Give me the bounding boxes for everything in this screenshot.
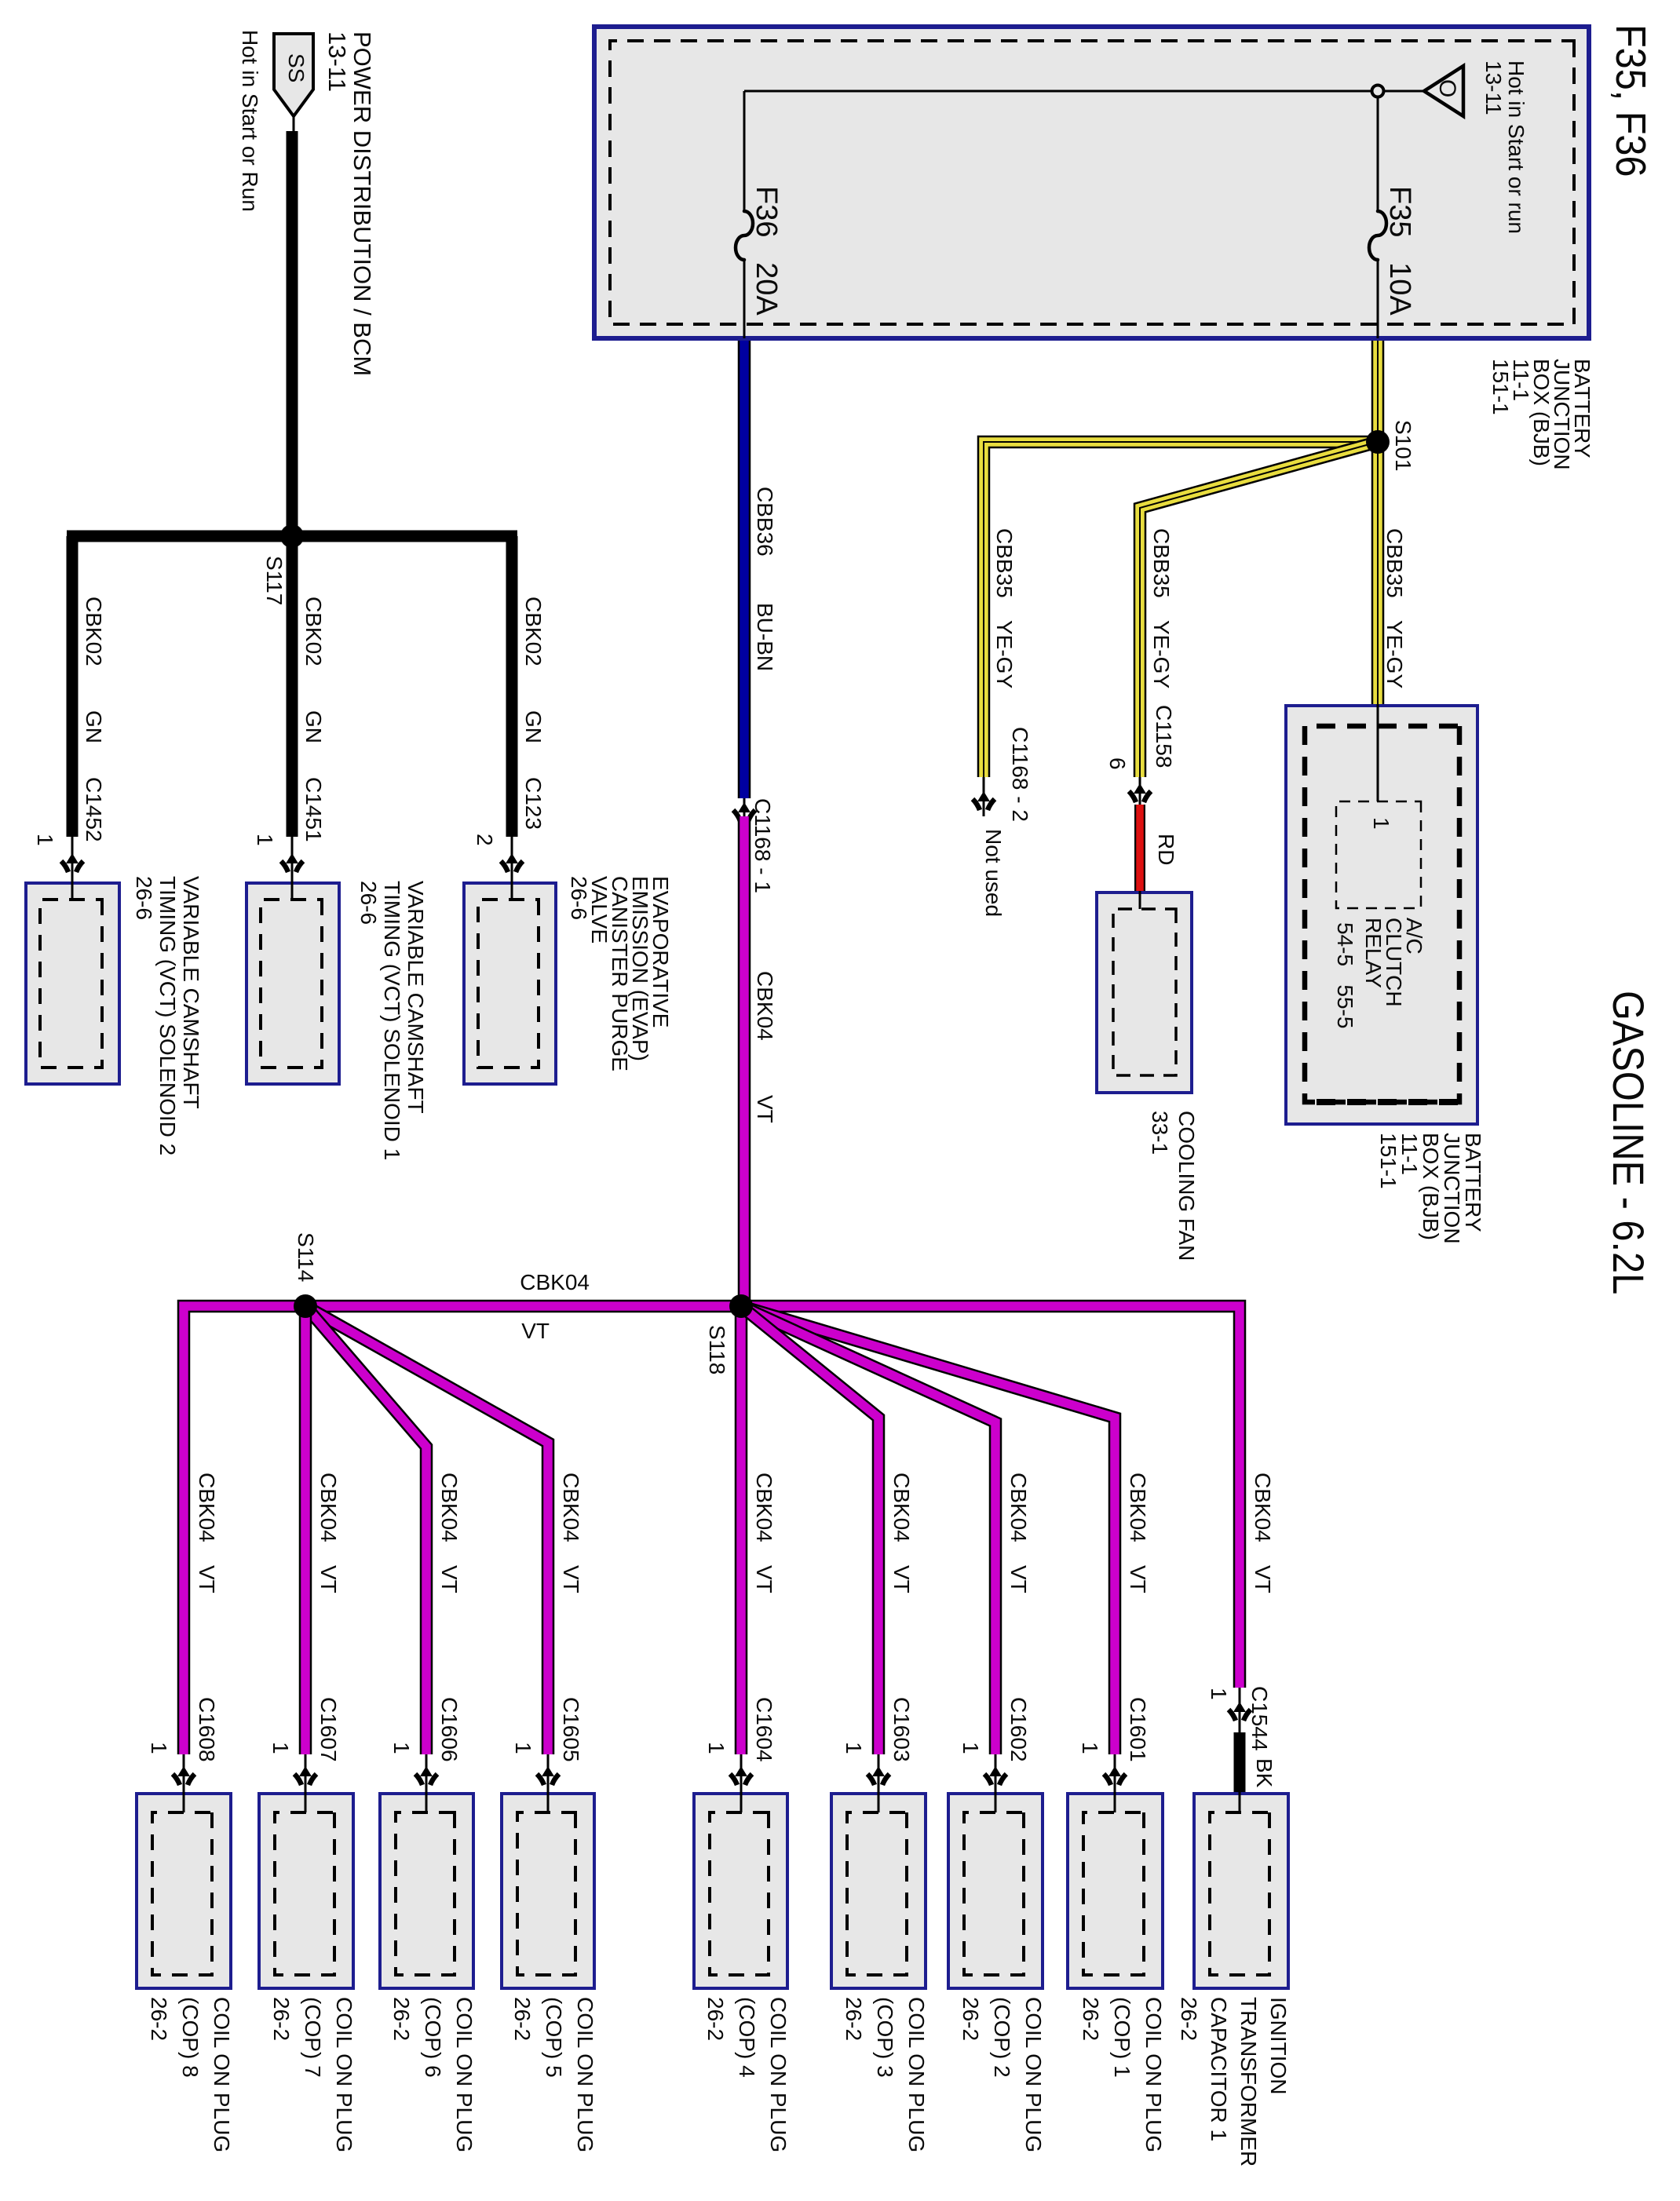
- label C123: [523, 777, 543, 830]
- fuse F35 10A: [1369, 211, 1386, 260]
- wire CBK04 VT trunk with C1544 and C1608 ends: [184, 1306, 1240, 1754]
- label 1: [706, 1742, 726, 1754]
- label CBK04: [520, 1272, 590, 1293]
- label VT: [754, 1565, 774, 1593]
- label VT: [891, 1565, 911, 1593]
- label VT: [1008, 1565, 1028, 1593]
- stub inside ignition capacitor box: [1239, 1792, 1241, 1812]
- label CBK04: [439, 1473, 459, 1542]
- label Not used: [983, 829, 1003, 917]
- label C1608: [196, 1697, 217, 1762]
- label CBK04: [1008, 1473, 1028, 1542]
- wire inside BJB: hot feed horizontal: [744, 90, 1423, 93]
- label VT: [196, 1565, 217, 1593]
- label VT: [754, 1095, 775, 1123]
- label CBK04: [1127, 1473, 1148, 1542]
- A/C relay pin-1 connector dashed box: [1336, 801, 1421, 908]
- stub into box at C1451: [291, 837, 294, 900]
- lead from SS pentagon: [293, 116, 295, 131]
- label C1452: [83, 777, 104, 842]
- label COIL ON PLUG (COP) 5 26-2: [506, 1997, 601, 2152]
- COP7 box inner dashed: [275, 1812, 334, 1975]
- splice S117: [280, 524, 304, 548]
- label VT: [318, 1565, 338, 1593]
- label CBK02: [523, 597, 543, 666]
- cooling fan box: [1095, 891, 1193, 1094]
- label RD: [1156, 834, 1176, 865]
- label 1: [148, 1742, 169, 1754]
- label S114: [295, 1232, 316, 1282]
- ignition transformer capacitor 1 box: [1192, 1792, 1290, 1990]
- label C1607: [318, 1697, 338, 1762]
- label C1604: [754, 1697, 774, 1762]
- label YE-GY: [1151, 620, 1171, 688]
- COP8 box inner dashed: [152, 1812, 212, 1975]
- A/C relay box inner dashed border: [1305, 726, 1459, 1102]
- COP2 box inner dashed: [964, 1812, 1024, 1975]
- wire stub inside cooling fan box: [1139, 891, 1141, 909]
- wire CBK04 VT to C1601: [741, 1306, 1115, 1754]
- label CBB36: [754, 487, 775, 557]
- label 1: [254, 834, 275, 846]
- label 1: [391, 1742, 411, 1754]
- wire RD to cooling fan: [1134, 805, 1145, 891]
- label C1544: [1249, 1686, 1269, 1751]
- fuse F36 20A: [736, 211, 753, 260]
- wire CBK02 GN to C123: [506, 536, 518, 837]
- connector C1168-2: [973, 791, 995, 810]
- wire CBK04 VT from C1168-1 to S118: [738, 816, 751, 1306]
- splice S101: [1366, 430, 1390, 454]
- COP5 box inner dashed: [517, 1812, 575, 1975]
- IGN box inner dashed: [1210, 1812, 1269, 1975]
- wire CBK04 VT to C1603: [741, 1306, 878, 1754]
- label VT: [1252, 1565, 1273, 1593]
- label COIL ON PLUG (COP) 7 26-2: [265, 1997, 360, 2152]
- COP1 box inner dashed: [1083, 1812, 1144, 1975]
- connector C1452: [61, 853, 83, 872]
- wire CBB35 YE-GY from F35 to A/C relay: [1371, 341, 1385, 704]
- coil on plug 8 box: [135, 1792, 232, 1990]
- label CBB35: [1151, 528, 1171, 598]
- stub into box at C1452: [71, 837, 74, 900]
- label BK: [1254, 1758, 1274, 1787]
- stub into box at C1602: [995, 1754, 997, 1812]
- label CBK04: [891, 1473, 911, 1542]
- label A/C CLUTCH RELAY: [1363, 918, 1424, 1007]
- label CBK02: [83, 597, 104, 666]
- wire CBB36 BU-BN from F36: [738, 341, 751, 798]
- label 13-11: [327, 31, 347, 92]
- connector C1544: [1229, 1702, 1251, 1721]
- connector C1603: [867, 1766, 889, 1785]
- label C1606: [439, 1697, 459, 1762]
- label CBK02: [303, 597, 323, 666]
- connector C1168-1: [733, 802, 755, 821]
- A/C clutch relay box: [1284, 704, 1479, 1126]
- EVAP box inner dashed: [478, 900, 539, 1068]
- label EVAPORATIVE EMISSION (EVAP) CANISTER PURGE VALVE 26-6: [568, 876, 670, 1071]
- label VARIABLE CAMSHAFT TIMING (VCT) SOLENOID 2 26-6: [132, 876, 203, 1155]
- label 54-5 55-5: [1335, 922, 1355, 1028]
- splice S114: [294, 1294, 317, 1318]
- label 2: [474, 834, 495, 846]
- stub into box at C1604: [740, 1754, 743, 1812]
- stub into box at C1607: [305, 1754, 307, 1812]
- label COIL ON PLUG (COP) 3 26-2: [838, 1997, 932, 2152]
- coil on plug 2 box: [947, 1792, 1044, 1990]
- label C1601: [1127, 1697, 1148, 1762]
- label BU-BN: [754, 603, 775, 671]
- wire BK to ignition transformer capacitor: [1234, 1732, 1246, 1792]
- label CBB35: [994, 528, 1014, 598]
- stub at C1168-2: [983, 777, 985, 816]
- label COIL ON PLUG (COP) 2 26-2: [955, 1997, 1049, 2152]
- coil on plug 7 box: [257, 1792, 355, 1990]
- label F36 20A: [751, 186, 781, 316]
- label C1602: [1008, 1697, 1028, 1762]
- VCT1 box inner dashed: [261, 900, 322, 1068]
- label Hot in Start or Run: [239, 30, 260, 212]
- wire CBK04 VT to C1606: [305, 1306, 426, 1754]
- stub into box at C1605: [547, 1754, 550, 1812]
- VCT solenoid 2 box: [24, 881, 121, 1086]
- label Hot in Start or run: [1506, 60, 1526, 234]
- label 1: [960, 1742, 981, 1754]
- A/C relay inner dashed thick right edge: [1306, 1099, 1458, 1105]
- label CBK04: [754, 1473, 774, 1542]
- label 1: [35, 834, 55, 846]
- label VARIABLE CAMSHAFT TIMING (VCT) SOLENOID 1 26-6: [356, 881, 427, 1160]
- label COOLING FAN: [1176, 1111, 1196, 1261]
- VCT2 box inner dashed: [40, 900, 102, 1068]
- splice S118: [729, 1294, 753, 1318]
- wire CBK04 VT to C1604: [735, 1306, 748, 1754]
- COP6 box inner dashed: [396, 1812, 455, 1975]
- label F35 10A: [1385, 186, 1415, 316]
- label CBK04: [754, 971, 775, 1041]
- wire stub into relay pin 1: [1377, 704, 1379, 801]
- label CBK04: [561, 1473, 581, 1542]
- stub at C1544: [1239, 1688, 1241, 1732]
- label VT: [561, 1565, 581, 1593]
- stub at C1158: [1139, 777, 1141, 805]
- cooling fan inner dashed border: [1113, 909, 1176, 1075]
- label COIL ON PLUG (COP) 8 26-2: [143, 1997, 237, 2152]
- wire CBK04 VT to C1602: [741, 1306, 995, 1754]
- label S101: [1393, 420, 1413, 471]
- wire CBK02 GN to C1452: [67, 536, 79, 837]
- label O: [1437, 79, 1457, 97]
- wire CBK02 bus at S117: [67, 531, 517, 542]
- label GN: [83, 710, 104, 743]
- label GN: [523, 710, 543, 743]
- label 33-1: [1149, 1111, 1170, 1155]
- coil on plug 4 box: [692, 1792, 789, 1990]
- label VT: [521, 1321, 550, 1341]
- wire CBK02 GN from SS to S117: [287, 131, 298, 536]
- label S117: [264, 556, 284, 605]
- label GASOLINE - 6.2L: [1606, 991, 1650, 1294]
- label C1168 - 2: [1010, 727, 1030, 822]
- label CBB35: [1384, 528, 1404, 598]
- connector C1604: [730, 1766, 752, 1785]
- connector C123: [501, 853, 523, 872]
- connector C1608: [173, 1766, 195, 1785]
- connector C1451: [281, 853, 303, 872]
- stub into box at C123: [511, 837, 513, 900]
- SS breakout pentagon: [274, 34, 313, 116]
- label CBK04: [196, 1473, 217, 1542]
- triangle power symbol: [1424, 66, 1463, 116]
- label COIL ON PLUG (COP) 4 26-2: [699, 1997, 794, 2152]
- label BATTERY JUNCTION BOX (BJB) 11-1 151-1: [1490, 359, 1592, 470]
- label 1: [513, 1742, 533, 1754]
- label SS: [286, 53, 306, 82]
- stub into box at C1606: [425, 1754, 428, 1812]
- stub into box at C1608: [183, 1754, 185, 1812]
- EVAP canister purge valve box: [462, 881, 557, 1086]
- label CBK04: [1252, 1473, 1273, 1542]
- label 6: [1107, 757, 1127, 770]
- label BATTERY JUNCTION BOX (BJB) 11-1 151-1: [1378, 1133, 1484, 1244]
- COP3 box inner dashed: [847, 1812, 907, 1975]
- connector C1606: [415, 1766, 437, 1785]
- connector C1607: [294, 1766, 316, 1785]
- label GN: [303, 710, 323, 743]
- stub into box at C1601: [1114, 1754, 1116, 1812]
- label YE-GY: [994, 620, 1014, 688]
- label 1: [270, 1742, 290, 1754]
- label POWER DISTRIBUTION / BCM: [352, 31, 372, 376]
- label C1605: [561, 1697, 581, 1762]
- wire CBB35 YE-GY branch to C1168-2: [984, 442, 1378, 777]
- connector C1602: [984, 1766, 1006, 1785]
- label C1451: [303, 777, 323, 842]
- COP4 box inner dashed: [710, 1812, 769, 1975]
- VCT solenoid 1 box: [245, 881, 341, 1086]
- coil on plug 1 box: [1066, 1792, 1164, 1990]
- BJB inner dashed border: [610, 41, 1574, 324]
- connector C1601: [1104, 1766, 1126, 1785]
- label 1: [1371, 817, 1391, 830]
- label 1: [843, 1742, 864, 1754]
- label IGNITION TRANSFORMER CAPACITOR 1 26-2: [1174, 1997, 1293, 2166]
- stub into box at C1603: [878, 1754, 880, 1812]
- label VT: [1127, 1565, 1148, 1593]
- wire CBK04 VT to C1607: [299, 1306, 312, 1754]
- label C1168 - 1: [752, 798, 772, 893]
- label F35, F36: [1609, 24, 1652, 177]
- node circle at fuse split: [1372, 86, 1384, 97]
- coil on plug 6 box: [378, 1792, 475, 1990]
- label 1: [1079, 1742, 1100, 1754]
- label S118: [707, 1325, 727, 1374]
- label 1: [1208, 1688, 1229, 1700]
- label C1603: [891, 1697, 911, 1762]
- connector C1605: [537, 1766, 559, 1785]
- coil on plug 3 box: [830, 1792, 927, 1990]
- wire CBK02 GN to C1451: [287, 536, 298, 837]
- connector C1158 pin 6: [1129, 783, 1151, 802]
- label CBK04: [318, 1473, 338, 1542]
- label COIL ON PLUG (COP) 6 26-2: [385, 1997, 480, 2152]
- label YE-GY: [1384, 620, 1404, 688]
- label C1158: [1153, 705, 1174, 768]
- label VT: [439, 1565, 459, 1593]
- wire CBB35 YE-GY branch to C1158: [1140, 442, 1378, 777]
- stub at C1168-1: [743, 798, 746, 816]
- battery junction box BJB (top): [592, 24, 1591, 341]
- label 13-11: [1483, 60, 1503, 115]
- wire CBK04 VT to C1605: [305, 1306, 548, 1754]
- label COIL ON PLUG (COP) 1 26-2: [1075, 1997, 1169, 2152]
- coil on plug 5 box: [500, 1792, 596, 1990]
